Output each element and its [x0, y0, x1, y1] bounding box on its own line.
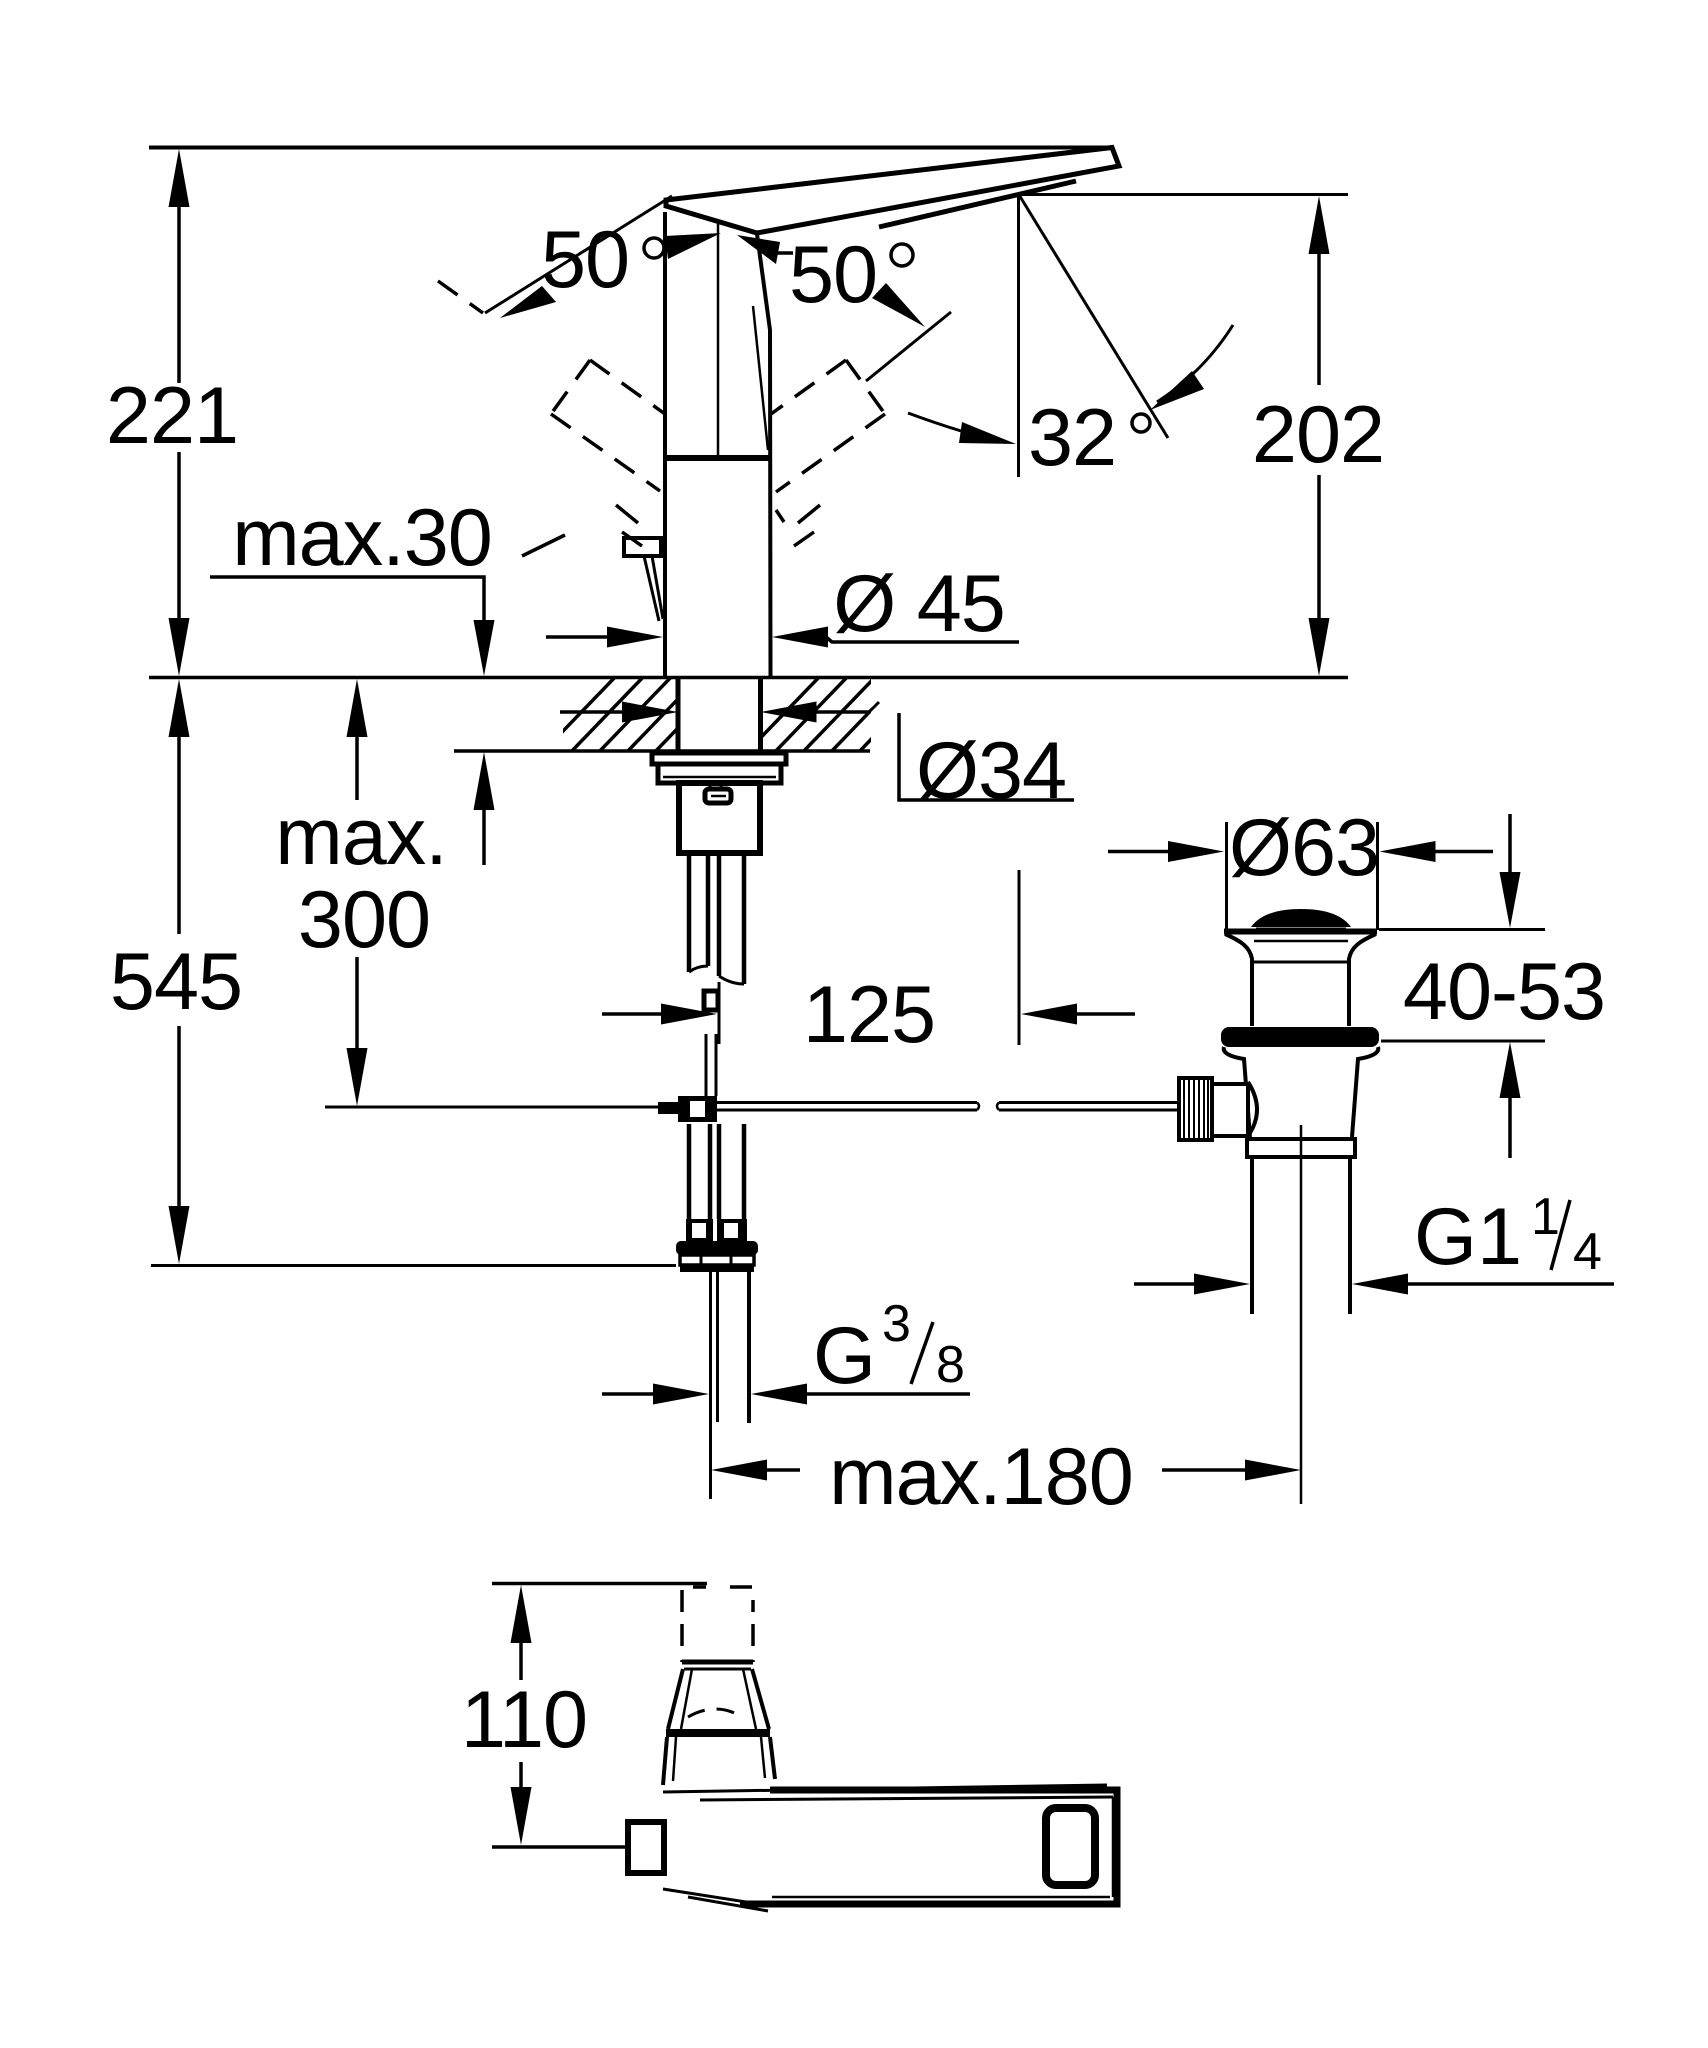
drain tailpipe — [1250, 1157, 1254, 1314]
plan lever bottom edge lines — [663, 1889, 772, 1906]
plan lever body outline — [740, 1790, 1117, 1904]
angle 32 deg arc with arrow — [1157, 325, 1233, 402]
angle 32 deg slant line — [1019, 194, 1169, 438]
angle 50 deg right label arrow to centerline — [737, 235, 780, 264]
svg-text:545: 545 — [110, 937, 242, 1027]
faucet body centerline — [717, 204, 720, 456]
pop-up rod vertical — [705, 1034, 708, 1096]
drain flange top — [1224, 929, 1377, 935]
pop-up rod top piece — [704, 991, 718, 1010]
dimension 110 bottom line — [492, 1845, 627, 1849]
svg-text:8: 8 — [936, 1336, 965, 1394]
dimension 40-53 lines — [1379, 928, 1545, 931]
drain knob connector — [1212, 1084, 1248, 1136]
svg-text:202: 202 — [1252, 390, 1384, 480]
drain knurled knob — [1179, 1078, 1212, 1140]
svg-text:32: 32 — [1028, 393, 1116, 483]
plan cone dashed arcs — [688, 1709, 742, 1717]
svg-text:125: 125 — [803, 970, 935, 1060]
faucet shank hole walls in counter — [676, 677, 681, 752]
svg-text:4: 4 — [1573, 1223, 1602, 1281]
faucet base flange — [676, 1241, 758, 1255]
mounting collar — [658, 764, 781, 783]
svg-text:300: 300 — [298, 875, 430, 965]
pop-up linkage block — [678, 1096, 717, 1122]
dimension max.30 leader and arrows — [210, 577, 495, 865]
counter cross-section hatching right of faucet — [744, 672, 936, 755]
dimension max.300 vertical line — [347, 679, 368, 1106]
threaded tail left — [709, 1272, 712, 1499]
handle lever blade — [666, 148, 1119, 234]
plan cone thick band — [666, 1729, 770, 1737]
angle 32 deg vertical reference line — [1017, 194, 1020, 477]
faucet body divider line — [663, 455, 772, 461]
angle 50 deg right label arrow on line — [872, 283, 925, 327]
leader bar 50 deg right — [777, 251, 793, 255]
dashed handle position left — [438, 281, 665, 491]
svg-text:max.: max. — [275, 792, 447, 882]
counter underside line — [454, 749, 870, 753]
supply hose lower left — [687, 1124, 692, 1219]
counter cross-section hatching left of faucet — [540, 672, 732, 755]
angle 32 deg leader from dashed handle — [908, 413, 1000, 441]
drain nut ring — [1247, 1139, 1355, 1157]
svg-text:50: 50 — [789, 230, 877, 320]
dimension diam 45 arrows — [546, 627, 1019, 648]
dimension 125 arrows — [602, 1004, 1135, 1025]
dimension 110 vertical line — [511, 1585, 532, 1845]
svg-text:max.180: max.180 — [829, 1432, 1133, 1522]
side mixer tab on body — [624, 538, 661, 556]
svg-text:G1: G1 — [1414, 1192, 1522, 1282]
pop-up horizontal rod — [717, 1101, 977, 1104]
drain pop-up cap — [1251, 909, 1351, 927]
wire top reference line — [149, 146, 1113, 150]
svg-text:40-53: 40-53 — [1403, 947, 1605, 1037]
dimension G 3/8 arrows — [602, 1384, 970, 1405]
dimension 40-53 arrows — [1500, 814, 1521, 1158]
supply hose upper right — [717, 853, 722, 976]
angle 50 deg left reference line — [485, 196, 672, 313]
dimension diam 63 extension ticks — [1225, 822, 1228, 930]
drain centerline — [1300, 1125, 1303, 1504]
plan lower cone sides — [663, 1737, 667, 1785]
svg-text:3: 3 — [882, 1295, 911, 1353]
svg-text:Ø34: Ø34 — [916, 726, 1066, 816]
faucet body inner slant line — [753, 306, 768, 450]
dimension 125 extension ticks — [718, 982, 721, 1044]
dashed handle left small lower dashes — [522, 505, 642, 556]
countertop surface line — [149, 676, 1348, 680]
hose end fitting right — [717, 1219, 747, 1242]
mounting block — [679, 783, 760, 853]
drain gasket — [1221, 1027, 1379, 1047]
svg-text:max.30: max.30 — [232, 493, 492, 583]
svg-text:110: 110 — [461, 1675, 587, 1765]
plan lever left button — [628, 1822, 664, 1873]
dimension diam 63 arrows — [1108, 841, 1493, 862]
svg-text:Ø 45: Ø 45 — [833, 559, 1005, 649]
hose end fitting left — [686, 1219, 713, 1242]
wire pop-up rod extension line — [325, 1106, 680, 1109]
plan cone sides — [668, 1669, 683, 1729]
threaded tail right — [747, 1272, 751, 1423]
wire bottom reference line (hose ends) — [151, 1264, 676, 1267]
angle 50 deg left arrow to centerline — [665, 233, 721, 259]
faucet body left edge — [663, 212, 667, 677]
faucet body right edge — [757, 234, 771, 677]
plan spout dashed outline — [682, 1587, 753, 1662]
dimension 202 vertical line — [1309, 196, 1330, 676]
plan lever inner right line — [1112, 1797, 1115, 1897]
dimension max.180 — [711, 1460, 1301, 1481]
plan lever window — [1046, 1808, 1095, 1885]
supply hose lower right — [717, 1124, 722, 1219]
mounting washer plate under counter — [652, 753, 786, 764]
drain body funnel — [1224, 1047, 1250, 1137]
svg-text:1: 1 — [1531, 1188, 1560, 1246]
dashed handle position right — [771, 360, 885, 492]
side tab lever — [644, 556, 659, 621]
angle 50 deg left label arrow on line — [500, 286, 556, 318]
supply hose upper left — [687, 853, 692, 972]
svg-text:G: G — [813, 1311, 876, 1401]
mounting screw — [709, 783, 712, 790]
dimension 110 top line — [492, 1582, 707, 1586]
angle 50 deg right reference line — [866, 312, 951, 381]
svg-text:Ø63: Ø63 — [1229, 803, 1379, 893]
handle blade inner edge line — [879, 181, 1076, 227]
drain flange bell — [1225, 934, 1252, 1026]
dimension G 1 1/4 arrows — [1134, 1274, 1614, 1295]
linkage left knob — [658, 1102, 678, 1114]
dimension 545 vertical line — [169, 679, 190, 1264]
svg-text:221: 221 — [106, 371, 238, 461]
dashed handle right small lower dashes — [776, 505, 820, 546]
plan lever top edge lines — [663, 1785, 1107, 1792]
dimension 202 extension line — [1019, 193, 1348, 196]
svg-text:50: 50 — [541, 215, 629, 305]
dimension diam 34 arrows — [560, 702, 1074, 801]
dimension 221 vertical line — [169, 149, 190, 676]
plan spout cone top — [682, 1660, 753, 1665]
